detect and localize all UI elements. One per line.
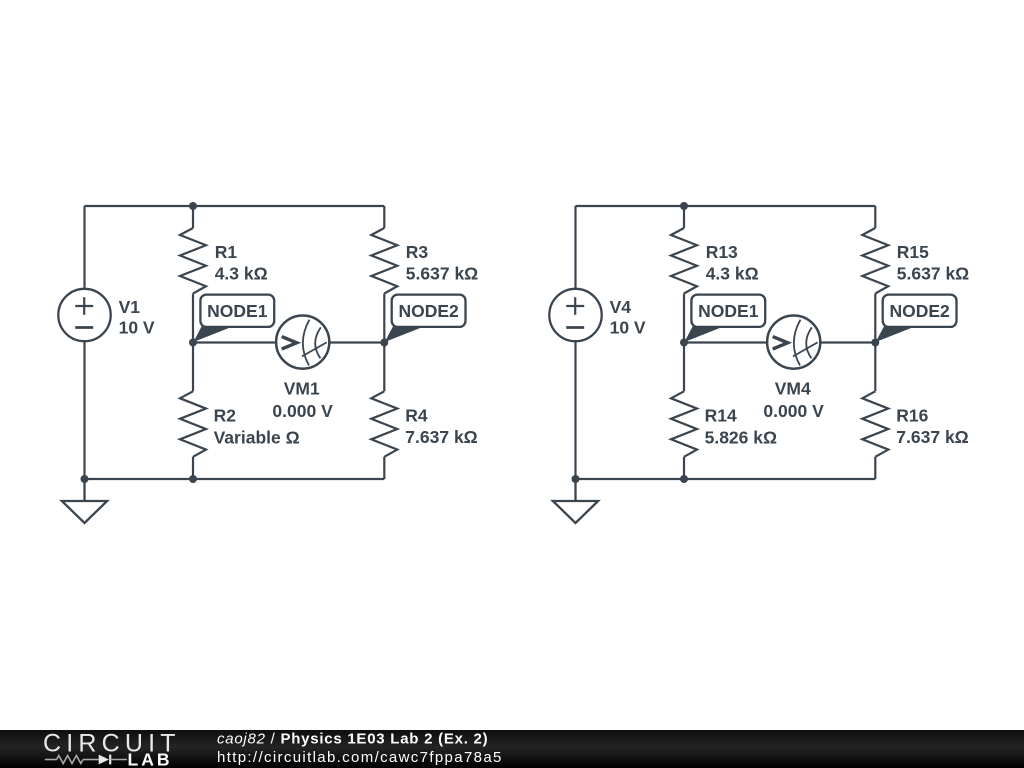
svg-text:10 V: 10 V [610,318,646,338]
resistor R13 [671,228,697,294]
svg-text:NODE2: NODE2 [889,301,950,321]
ground left circuit [62,479,107,523]
svg-text:4.3 kΩ: 4.3 kΩ [706,263,759,283]
svg-text:http://circuitlab.com/cawc7fpp: http://circuitlab.com/cawc7fppa78a5 [217,749,503,766]
svg-text:R16: R16 [896,406,928,426]
svg-text:V1: V1 [119,297,141,317]
resistor R15 [862,228,888,294]
label R15 5.637 kOhm [897,242,969,283]
node dot NODE2 left circuit [380,339,388,347]
wire branch1 vertical lower right circuit [683,457,685,479]
svg-text:R14: R14 [705,405,737,425]
label R4 7.637 kOhm [405,406,477,448]
svg-text:NODE2: NODE2 [398,301,459,321]
svg-text:7.637 kΩ: 7.637 kΩ [896,427,968,447]
node dot bottom junction left circuit [189,475,197,483]
wire top rail left circuit [85,205,385,207]
svg-text:0.000 V: 0.000 V [272,401,333,421]
svg-text:R13: R13 [706,242,738,262]
svg-text:0.000 V: 0.000 V [763,401,824,421]
wire middle (bridge) left circuit [193,341,384,343]
label R2 Variable Ohm [214,405,300,447]
resistor R1 [180,228,206,294]
wire branch2 vertical mid left circuit [383,294,385,392]
logo wire with resistor and diode [45,755,127,765]
wire branch1 vertical upper right circuit [683,206,685,228]
svg-text:7.637 kΩ: 7.637 kΩ [405,427,477,447]
wire branch2 vertical mid right circuit [874,294,876,392]
voltmeter VM1 [276,316,329,369]
resistor R16 [862,391,888,457]
footer bar [0,730,1024,768]
node dot NODE1 right circuit [680,339,688,347]
wire branch1 vertical mid right circuit [683,294,685,392]
node dot NODE1 left circuit [189,339,197,347]
wire branch2 vertical upper right circuit [874,206,876,228]
label VM4 0.000 V [763,379,824,421]
node NODE1 label right circuit [684,295,765,342]
wire left rail left circuit [83,206,85,479]
label R13 4.3 kOhm [706,242,759,283]
svg-text:NODE1: NODE1 [207,301,268,321]
svg-text:R4: R4 [405,406,428,426]
label V4 10 V [610,297,646,338]
resistor R2 [180,391,206,457]
node dot top junction right circuit [680,202,688,210]
svg-text:NODE1: NODE1 [698,301,759,321]
svg-text:R3: R3 [406,242,429,262]
node dot NODE2 right circuit [871,339,879,347]
label R1 4.3 kOhm [215,242,268,283]
resistor R3 [371,228,397,294]
resistor R14 [671,391,697,457]
svg-text:10 V: 10 V [119,318,155,338]
ground right circuit [553,479,598,523]
wire branch2 vertical lower left circuit [383,457,385,479]
voltage source V1 [58,289,110,341]
svg-text:R1: R1 [215,242,238,262]
node NODE2 label left circuit [385,295,466,342]
voltage source V4 [549,289,601,341]
svg-text:R15: R15 [897,242,929,262]
svg-text:caoj82 / Physics 1E03 Lab 2 (E: caoj82 / Physics 1E03 Lab 2 (Ex. 2) [217,731,488,748]
label VM1 0.000 V [272,379,333,421]
voltmeter VM4 [767,316,820,369]
svg-text:V4: V4 [610,297,632,317]
node dot bottom-left junction right circuit [572,475,580,483]
svg-text:R2: R2 [214,405,237,425]
svg-text:5.637 kΩ: 5.637 kΩ [406,263,478,283]
wire branch2 vertical lower right circuit [874,457,876,479]
label V1 10 V [119,297,155,338]
svg-text:LAB: LAB [128,750,173,768]
wire branch2 vertical upper left circuit [383,206,385,228]
svg-text:4.3 kΩ: 4.3 kΩ [215,263,268,283]
node dot bottom-left junction left circuit [81,475,89,483]
svg-text:VM4: VM4 [775,379,811,399]
node dot top junction left circuit [189,202,197,210]
wire middle (bridge) right circuit [684,341,875,343]
wire branch1 vertical upper left circuit [192,206,194,228]
svg-text:VM1: VM1 [284,379,320,399]
wire branch1 vertical lower left circuit [192,457,194,479]
node NODE1 label left circuit [193,295,274,342]
wire bottom rail left circuit [85,478,385,480]
resistor R4 [371,391,397,457]
svg-text:5.826 kΩ: 5.826 kΩ [705,427,777,447]
wire bottom rail right circuit [576,478,876,480]
label R16 7.637 kOhm [896,406,968,448]
node NODE2 label right circuit [876,295,957,342]
wire left rail right circuit [574,206,576,479]
node dot bottom junction right circuit [680,475,688,483]
label R3 5.637 kOhm [406,242,478,283]
svg-text:5.637 kΩ: 5.637 kΩ [897,263,969,283]
label R14 5.826 kOhm [705,405,777,447]
wire branch1 vertical mid left circuit [192,294,194,392]
svg-text:Variable Ω: Variable Ω [214,427,300,447]
wire top rail right circuit [576,205,876,207]
